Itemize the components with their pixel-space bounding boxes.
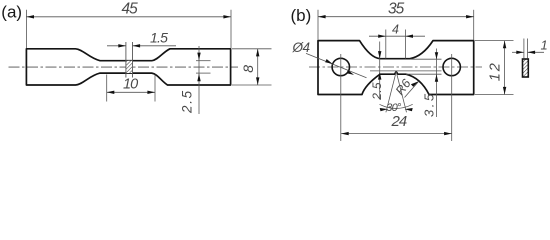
dim 8 line [257, 49, 259, 85]
dim 2.5a extension line bottom [196, 72, 211, 74]
dim 2.5a arrow lower [197, 74, 200, 82]
dia 4 leader arrow on circle upper-left [325, 59, 332, 64]
R6 leader arrow [411, 81, 419, 87]
dim 24 line [341, 133, 452, 135]
dim 10 extension line left [106, 75, 108, 102]
gauge mark line right [132, 42, 134, 78]
dim 12 arrow bottom [503, 87, 506, 95]
dim 8 arrow top [256, 49, 259, 57]
dim 24 arrow right [444, 132, 452, 135]
notch flat level extension line right [406, 73, 442, 75]
vee flank right (extended) [396, 72, 406, 113]
dim 3.5 vertical line [436, 49, 438, 118]
svg-text:(b): (b) [291, 6, 312, 25]
dim 4 arrow right [405, 35, 413, 38]
dim 45 arrow left [26, 15, 34, 18]
svg-text:24: 24 [391, 113, 407, 130]
dim 10 arrow left [107, 91, 115, 94]
dim 2.5a arrow upper [197, 53, 200, 61]
dim 1.5 line right segment [133, 45, 177, 47]
centerline of plate B [309, 66, 482, 68]
dim 2.5b up arrow at vee tip level [378, 72, 381, 80]
dim 12 arrow top [503, 41, 506, 49]
svg-text:35: 35 [388, 0, 405, 17]
dim 2.5b vertical line with down arrow onto notch flat [379, 42, 381, 100]
gauge mark hatched band [126, 61, 132, 73]
svg-text:2.5: 2.5 [179, 89, 194, 114]
dim 1.5 arrow right [133, 44, 141, 47]
dim 10 arrow right [147, 91, 155, 94]
svg-text:8: 8 [240, 65, 256, 73]
gauge mark line left [125, 42, 127, 78]
svg-text:3.5: 3.5 [421, 91, 436, 117]
hole left vertical crosshair / dim 24 extension [340, 54, 342, 141]
dia 4 leader line [306, 53, 367, 77]
dim 1 extension line right [527, 39, 529, 59]
dim 1 arrow right [528, 51, 536, 54]
angle 30 dimension arc [380, 104, 413, 108]
hole left [332, 58, 349, 75]
dim 8 extension line top [232, 48, 272, 50]
dim 4 arrow left [378, 35, 386, 38]
dim 3.5 arrow upper [435, 52, 438, 59]
dim 12 line [504, 41, 506, 95]
svg-text:45: 45 [122, 0, 139, 17]
svg-text:2.5: 2.5 [370, 82, 384, 101]
dim 8 arrow bottom [256, 77, 259, 85]
dim 8 extension line bottom [232, 84, 272, 86]
side view section rectangle [523, 59, 529, 77]
svg-text:10: 10 [123, 77, 138, 93]
vee tip level extension line [370, 70, 442, 72]
dim 12 extension line bottom [475, 94, 514, 96]
dim 2.5a vertical line [198, 46, 200, 114]
svg-text:30°: 30° [386, 102, 402, 114]
plate B outline with notches [318, 41, 474, 95]
dim 35 arrow right [466, 15, 474, 18]
svg-text:(a): (a) [1, 3, 22, 22]
dim 4 line [369, 35, 425, 37]
dim 4 extension line right [404, 30, 406, 59]
R6 leader line [405, 81, 419, 97]
dim 1 line left part [512, 51, 524, 53]
angle 30 arc arrow right [405, 108, 413, 111]
dim 1 arrow left [516, 51, 524, 54]
svg-text:Ø4: Ø4 [292, 40, 310, 55]
dim 45 arrow right [223, 15, 231, 18]
vee flank left (extended) [386, 72, 396, 113]
dim 35 extension line right [473, 10, 475, 40]
svg-text:4: 4 [392, 23, 399, 37]
svg-text:12: 12 [487, 61, 503, 81]
dia 4 leader arrow on circle lower-right [347, 70, 354, 75]
dim 1.5 line left segment [107, 45, 126, 47]
svg-text:1: 1 [541, 38, 548, 53]
specimen A outline (dog-bone) [26, 49, 230, 85]
dim 12 extension line top [475, 40, 514, 42]
hole right [443, 58, 460, 75]
dim 4 extension line left [385, 30, 387, 59]
dim 3.5 arrow lower [435, 74, 438, 82]
dim 2.5a extension line top [196, 60, 211, 62]
dim 24 arrow left [341, 132, 349, 135]
dim 10 line [107, 91, 155, 93]
hole right vertical crosshair / dim 24 extension [451, 54, 453, 141]
dim 1.5 arrow left [118, 44, 126, 47]
angle 30 arc arrow left [380, 108, 388, 111]
centerline of specimen A [9, 66, 239, 68]
dim 45 extension line left [25, 10, 27, 48]
dim 1 extension line left [523, 39, 525, 59]
dim 1 line right part [528, 51, 545, 53]
dim 35 line [318, 16, 474, 18]
svg-text:1.5: 1.5 [150, 29, 168, 45]
dim 45 extension line right [230, 10, 232, 48]
dim 10 extension line right [154, 75, 156, 102]
dim 35 extension line left [317, 10, 319, 40]
dim 35 arrow left [318, 15, 326, 18]
dim 45 line [26, 16, 231, 18]
dim 3.5 extension line upper [411, 58, 442, 60]
